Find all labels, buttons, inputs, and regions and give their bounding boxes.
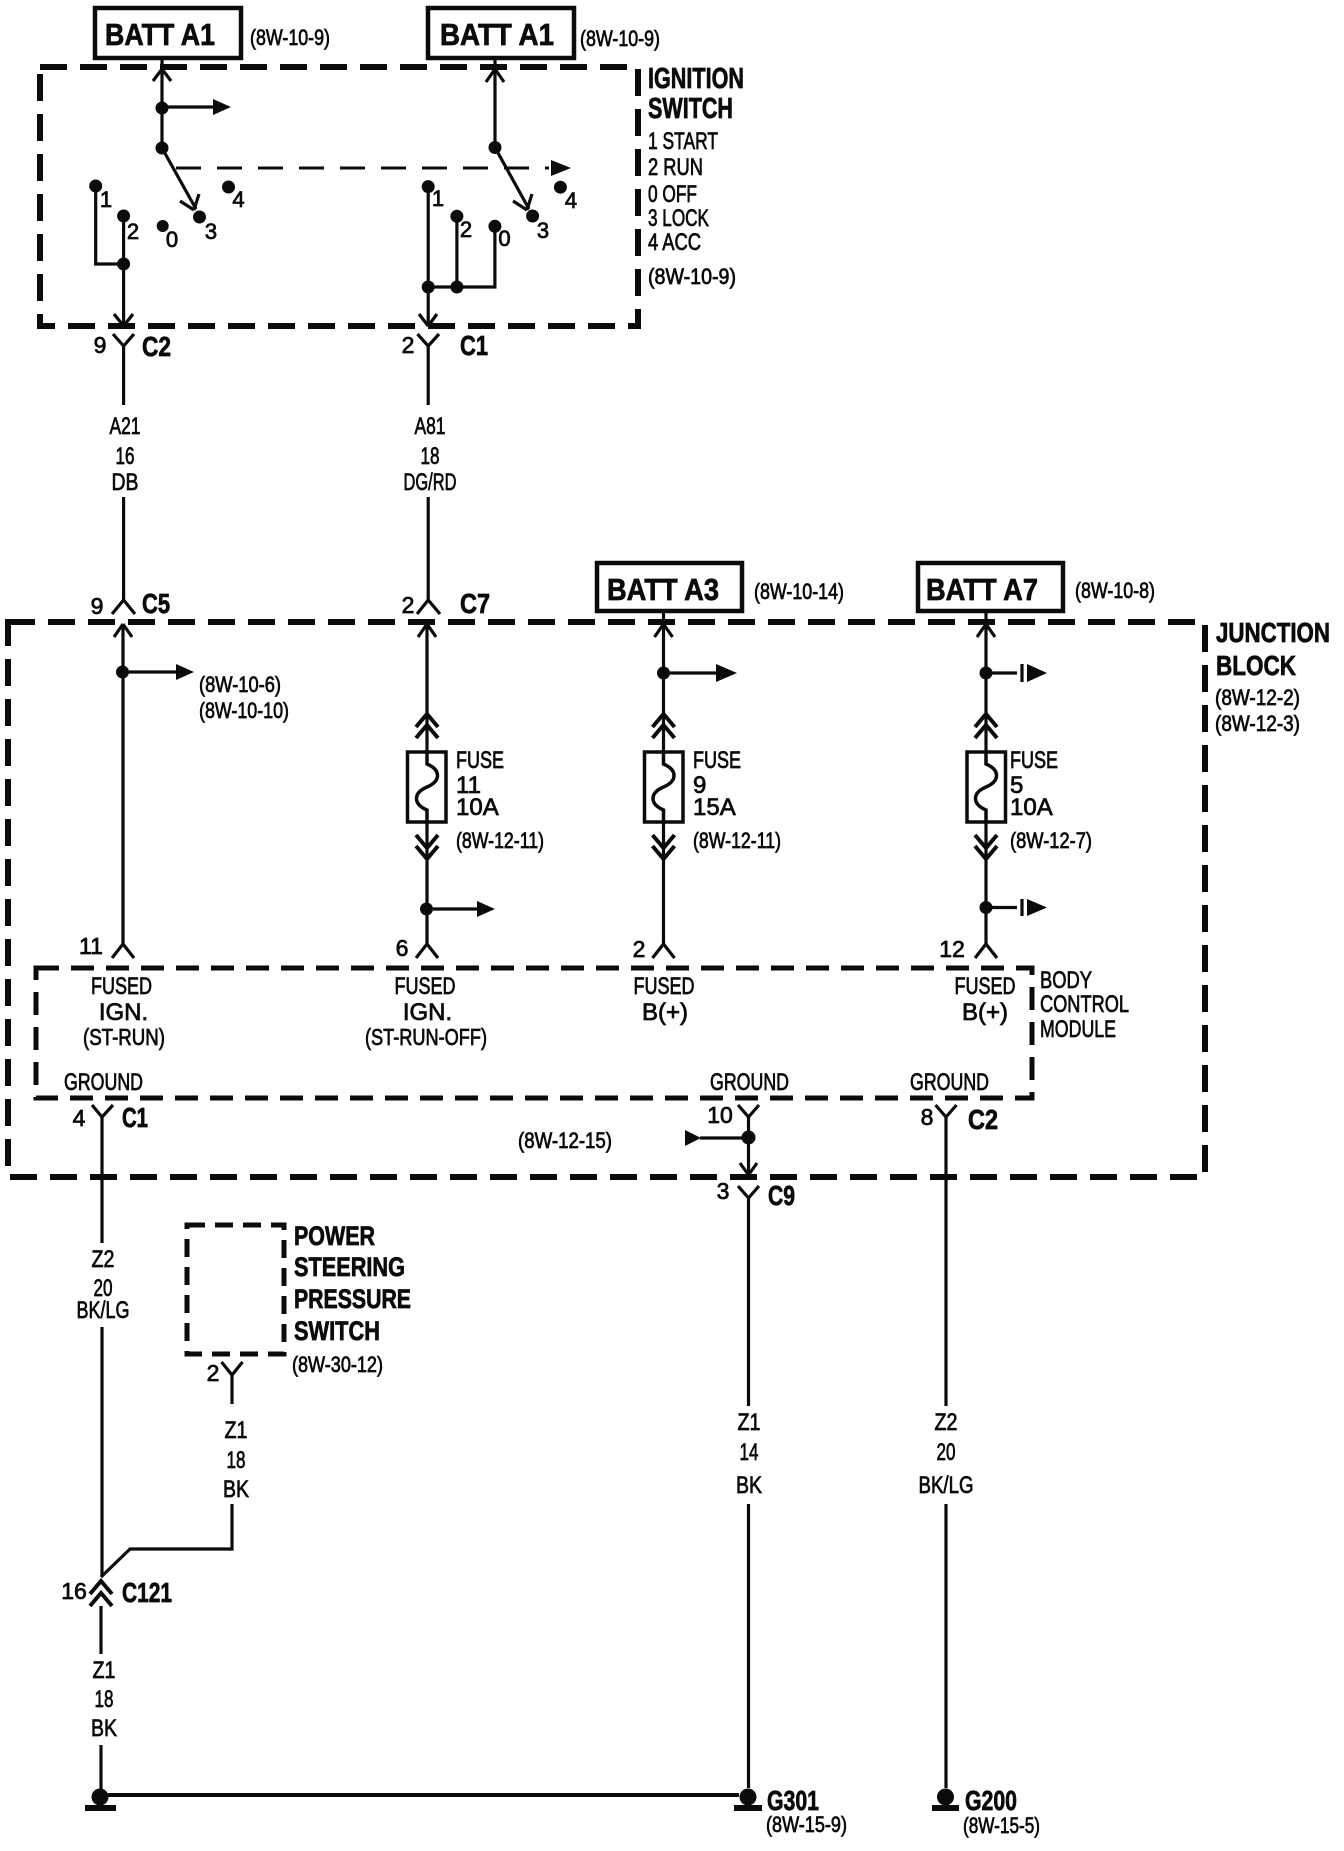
wire Z1 to G301	[747, 1504, 750, 1788]
wire Z2 down through junction border	[944, 1117, 947, 1406]
svg-text:BLOCK: BLOCK	[1216, 650, 1296, 681]
node ground join	[742, 1131, 756, 1145]
fuse 11	[408, 752, 447, 822]
wire leg4 upper	[984, 624, 987, 752]
svg-text:FUSED: FUSED	[634, 973, 695, 1000]
svg-text:1: 1	[432, 186, 444, 211]
chevron pair down leg4	[975, 835, 997, 859]
svg-text:(8W-12-7): (8W-12-7)	[1010, 828, 1092, 853]
svg-text:3 LOCK: 3 LOCK	[648, 205, 709, 232]
ground G200	[937, 1789, 954, 1806]
wire Z1 down	[747, 1198, 750, 1406]
svg-text:0: 0	[498, 226, 510, 251]
label POWER STEERING PRESSURE SWITCH	[292, 1221, 411, 1377]
wire leg2 lower	[425, 822, 428, 944]
connector pin 6 at BCM	[416, 944, 438, 958]
svg-text:(8W-10-9): (8W-10-9)	[250, 25, 330, 50]
svg-text:(8W-15-9): (8W-15-9)	[766, 1812, 847, 1837]
wire from left BATT A1 into ignition box	[160, 58, 163, 66]
svg-text:Z2: Z2	[935, 1409, 958, 1436]
wire label Z1 18 BK (PS)	[223, 1417, 249, 1503]
label BODY CONTROL MODULE	[1040, 967, 1129, 1043]
terminal 2 (right switch)	[450, 210, 463, 223]
svg-text:IGN.: IGN.	[99, 999, 148, 1026]
svg-text:(8W-10-14): (8W-10-14)	[754, 579, 844, 604]
svg-text:BODY: BODY	[1040, 967, 1092, 994]
node leg1	[116, 666, 129, 679]
connector pin 12 at BCM	[975, 944, 997, 958]
svg-text:3: 3	[537, 218, 549, 243]
wire terminal1 to junction (left)	[96, 186, 124, 264]
svg-text:(8W-10-6): (8W-10-6)	[199, 672, 281, 697]
ignition switch dashed box	[40, 67, 638, 326]
ground G301	[740, 1789, 757, 1806]
svg-text:4: 4	[565, 188, 577, 213]
arrow to other circuits (left)	[168, 105, 214, 108]
terminal 3 (right switch)	[526, 210, 539, 223]
switch wiper pivot (right)	[489, 141, 502, 154]
svg-text:JUNCTION: JUNCTION	[1216, 617, 1330, 648]
battery feed box BATT A1 (left)	[95, 8, 241, 58]
wire to C2 with down arrow	[122, 264, 125, 326]
terminal 3 (left switch)	[193, 211, 206, 224]
svg-text:2: 2	[460, 217, 472, 242]
svg-text:C1: C1	[460, 330, 488, 361]
svg-text:C2: C2	[142, 331, 171, 362]
svg-text:4: 4	[232, 187, 244, 212]
node leg4 lower	[980, 901, 993, 914]
reference labels (8W-10-6) (8W-10-10)	[199, 672, 289, 723]
svg-text:11: 11	[79, 933, 103, 959]
wire A81	[427, 497, 430, 600]
svg-text:STEERING: STEERING	[294, 1252, 405, 1282]
connector C2 pin 9	[113, 334, 134, 405]
switch wiper arm (left)	[162, 148, 196, 209]
wire	[160, 69, 163, 148]
fuse 9	[645, 752, 684, 822]
svg-text:(8W-10-10): (8W-10-10)	[199, 698, 289, 723]
switch position dashed travel line with arrow	[176, 167, 549, 170]
svg-text:(8W-10-9): (8W-10-9)	[580, 26, 660, 51]
svg-text:FUSED: FUSED	[395, 973, 456, 1000]
wire leg3 upper	[662, 624, 665, 752]
arrow to other circuits leg2	[433, 907, 477, 910]
wire Z2 continues	[100, 1327, 103, 1577]
terminal 2 (left switch)	[117, 210, 130, 223]
wire label A81 18 DG/RD	[404, 413, 457, 496]
svg-text:(8W-12-2): (8W-12-2)	[1215, 685, 1300, 710]
svg-text:2: 2	[127, 219, 139, 244]
wire down with arrow at junction border	[747, 1137, 750, 1175]
svg-text:(8W-12-3): (8W-12-3)	[1215, 711, 1300, 736]
wire leg1	[121, 624, 124, 944]
svg-text:4: 4	[73, 1105, 86, 1131]
svg-text:GROUND: GROUND	[64, 1069, 143, 1096]
node leg2	[420, 903, 433, 916]
wire terminal0 down then left (right)	[428, 226, 495, 287]
svg-text:SWITCH: SWITCH	[294, 1316, 380, 1346]
svg-text:FUSED: FUSED	[91, 973, 152, 1000]
svg-text:A81: A81	[415, 413, 446, 440]
wire to ground splice	[99, 1745, 102, 1789]
svg-text:IGNITION: IGNITION	[648, 63, 744, 95]
wire from right BATT A1 into ignition box	[493, 58, 496, 66]
svg-text:0: 0	[166, 227, 178, 252]
connector C2 pin 8 below BCM	[936, 1105, 957, 1117]
wire to C1 with down arrow	[427, 287, 430, 326]
svg-text:18: 18	[421, 443, 440, 470]
svg-text:Z1: Z1	[738, 1409, 761, 1436]
wire	[493, 69, 496, 148]
wire A21	[122, 497, 125, 600]
svg-text:BK: BK	[736, 1472, 762, 1499]
svg-text:C121: C121	[122, 1577, 172, 1608]
svg-text:G200: G200	[965, 1785, 1017, 1816]
connector C5 pin 9	[112, 600, 135, 614]
wire label Z2 20 BK/LG (left)	[77, 1246, 130, 1324]
switch wiper arm (right)	[495, 148, 529, 210]
ground splice node	[92, 1789, 109, 1806]
junction leg 3: arrow into block	[655, 624, 673, 637]
svg-text:4 ACC: 4 ACC	[648, 229, 701, 256]
svg-text:BK/LG: BK/LG	[919, 1472, 974, 1499]
arrow to other circuits leg3	[670, 671, 716, 674]
svg-text:12: 12	[939, 936, 965, 962]
wire terminal2 down (right)	[455, 216, 458, 287]
svg-text:3: 3	[205, 219, 217, 244]
BCM ground labels	[64, 1069, 989, 1096]
wire leg4 lower	[984, 822, 987, 944]
wire label Z2 20 BK/LG (right)	[919, 1409, 974, 1499]
svg-text:(8W-12-15): (8W-12-15)	[518, 1128, 612, 1153]
arrow to other circuits leg4	[992, 664, 1022, 682]
svg-text:18: 18	[95, 1686, 114, 1713]
connector pin 2 at BCM	[653, 944, 675, 958]
svg-text:FUSE: FUSE	[456, 747, 504, 774]
svg-text:2: 2	[207, 1360, 220, 1386]
terminal 0 (right switch)	[488, 220, 501, 233]
node leg4	[980, 667, 993, 680]
switch wiper pivot (left)	[156, 142, 169, 155]
svg-text:9: 9	[94, 332, 107, 358]
svg-text:1: 1	[100, 187, 112, 212]
body control module dashed box	[36, 968, 1032, 1098]
wire terminal2 down (left)	[122, 216, 125, 264]
svg-text:FUSE: FUSE	[693, 747, 741, 774]
svg-text:BATT A1: BATT A1	[440, 17, 554, 52]
svg-text:10A: 10A	[456, 794, 499, 821]
svg-text:BK: BK	[223, 1476, 249, 1503]
svg-text:2: 2	[633, 936, 646, 962]
svg-text:2: 2	[402, 592, 415, 618]
svg-text:DB: DB	[112, 469, 139, 496]
svg-text:C2: C2	[968, 1104, 998, 1135]
svg-text:1 START: 1 START	[648, 128, 718, 155]
svg-text:FUSED: FUSED	[955, 973, 1016, 1000]
terminal 1 (left switch)	[89, 180, 102, 193]
wire terminal1 down (right)	[427, 187, 430, 287]
svg-text:C5: C5	[142, 588, 170, 619]
svg-text:16: 16	[61, 1578, 87, 1604]
svg-text:3: 3	[717, 1178, 730, 1204]
arrow up at ignition box top (left)	[153, 69, 171, 81]
svg-text:(8W-10-9): (8W-10-9)	[648, 264, 736, 289]
node leg3	[657, 667, 670, 680]
fuse 5	[967, 752, 1006, 822]
wire splice to G301	[108, 1793, 739, 1797]
svg-text:GROUND: GROUND	[710, 1069, 789, 1096]
svg-text:B(+): B(+)	[962, 999, 1008, 1026]
wire Z1 from PS switch, jog left to C121	[101, 1504, 232, 1577]
connector C1 pin 4 below BCM	[92, 1105, 113, 1117]
svg-text:C7: C7	[460, 588, 490, 619]
wire leg3 lower	[662, 822, 665, 944]
svg-text:A21: A21	[110, 413, 141, 440]
svg-text:Z1: Z1	[93, 1657, 116, 1684]
wire below C121	[99, 1606, 102, 1654]
arrow to other circuits leg1	[129, 670, 176, 673]
svg-text:(8W-12-11): (8W-12-11)	[456, 828, 544, 853]
wire label Z1 18 BK (bottom left)	[91, 1657, 117, 1742]
label JUNCTION BLOCK	[1215, 617, 1330, 736]
terminal 1 (right switch)	[422, 180, 435, 193]
svg-text:B(+): B(+)	[642, 999, 688, 1026]
svg-text:10A: 10A	[1010, 794, 1053, 821]
chevron pair up leg4	[975, 714, 997, 738]
svg-text:GROUND: GROUND	[910, 1069, 989, 1096]
chevron pair down leg3	[653, 835, 675, 859]
battery feed box BATT A3	[597, 563, 742, 611]
junction leg 4: arrow into block	[977, 624, 995, 637]
svg-text:(8W-10-8): (8W-10-8)	[1075, 578, 1155, 603]
wire BATT A7 to junction block	[984, 611, 987, 621]
junction node (left switch output)	[117, 258, 130, 271]
terminal 4 (right switch)	[554, 181, 567, 194]
chevron pair up leg2	[416, 714, 438, 738]
connector pin 2 below PS switch	[222, 1362, 243, 1404]
svg-text:BK/LG: BK/LG	[77, 1297, 130, 1324]
svg-text:CONTROL: CONTROL	[1040, 991, 1129, 1018]
wire label Z1 14 BK (middle)	[736, 1409, 762, 1499]
svg-text:(ST-RUN-OFF): (ST-RUN-OFF)	[365, 1024, 487, 1050]
svg-text:IGN.: IGN.	[403, 999, 452, 1026]
junction node 1 (right switch output)	[422, 281, 435, 294]
svg-text:(8W-30-12): (8W-30-12)	[292, 1352, 383, 1377]
svg-text:14: 14	[740, 1439, 759, 1466]
svg-text:MODULE: MODULE	[1040, 1016, 1116, 1043]
svg-text:BATT A1: BATT A1	[105, 17, 215, 52]
svg-text:BK: BK	[91, 1715, 117, 1742]
svg-text:9: 9	[91, 593, 104, 619]
connector pin 11 at BCM	[112, 944, 134, 958]
wire Z2 to G200	[944, 1504, 947, 1788]
svg-text:20: 20	[937, 1439, 956, 1466]
svg-text:2 RUN: 2 RUN	[648, 154, 703, 181]
power steering pressure switch dashed box	[187, 1225, 284, 1354]
arrow from other circuits	[700, 1136, 749, 1139]
svg-text:Z2: Z2	[92, 1246, 115, 1273]
svg-text:10: 10	[707, 1102, 733, 1128]
svg-text:(8W-12-11): (8W-12-11)	[693, 828, 781, 853]
svg-text:PRESSURE: PRESSURE	[294, 1284, 411, 1314]
connector pin 10 below BCM	[738, 1105, 759, 1117]
battery feed box BATT A7	[918, 563, 1063, 611]
connector C1 pin 2	[418, 334, 440, 405]
svg-text:C9: C9	[768, 1180, 795, 1211]
svg-text:15A: 15A	[693, 794, 736, 821]
arrow to other circuits leg4 lower	[992, 899, 1022, 916]
svg-text:0 OFF: 0 OFF	[648, 181, 697, 208]
stem to node	[747, 1117, 750, 1137]
svg-text:C1: C1	[122, 1102, 148, 1133]
junction block dashed box	[8, 622, 1205, 1177]
ground splice bar	[85, 1805, 116, 1811]
svg-text:16: 16	[116, 443, 135, 470]
junction node 2	[450, 281, 463, 294]
svg-text:DG/RD: DG/RD	[404, 469, 457, 496]
svg-text:POWER: POWER	[294, 1221, 375, 1251]
wire Z2 from BCM through junction border	[100, 1117, 103, 1243]
wire label A21 16 DB	[110, 413, 141, 496]
battery feed box BATT A1 (right)	[428, 8, 574, 58]
svg-text:BATT A3: BATT A3	[607, 572, 719, 607]
svg-text:(8W-15-5): (8W-15-5)	[963, 1813, 1040, 1838]
connector C7 pin 2	[417, 600, 440, 614]
connector C121 pin 16 (double chevron)	[90, 1581, 112, 1606]
junction leg 2: arrow into block	[418, 624, 436, 637]
svg-text:8: 8	[921, 1104, 934, 1130]
svg-text:2: 2	[402, 332, 415, 358]
node B+ feed (left)	[156, 102, 169, 115]
label IGNITION SWITCH legend	[648, 63, 744, 289]
chevron pair up leg3	[653, 714, 675, 738]
svg-text:BATT A7: BATT A7	[926, 572, 1038, 607]
svg-text:SWITCH: SWITCH	[648, 93, 733, 125]
svg-text:(ST-RUN): (ST-RUN)	[83, 1024, 165, 1050]
junction leg 1: arrow into block	[114, 624, 132, 637]
svg-text:FUSE: FUSE	[1010, 747, 1058, 774]
arrow up at ignition box top (right)	[486, 69, 504, 82]
terminal 4 (left switch)	[222, 181, 235, 194]
svg-text:Z1: Z1	[225, 1417, 248, 1444]
terminal 0 (left switch)	[157, 220, 169, 232]
connector C9 pin 3	[738, 1186, 759, 1198]
svg-text:6: 6	[396, 935, 409, 961]
wire leg2 upper	[425, 624, 428, 752]
BCM input labels	[83, 973, 1016, 1050]
svg-text:18: 18	[227, 1447, 246, 1474]
chevron pair down leg2	[416, 835, 438, 859]
wire BATT A3 to junction block	[662, 611, 665, 621]
